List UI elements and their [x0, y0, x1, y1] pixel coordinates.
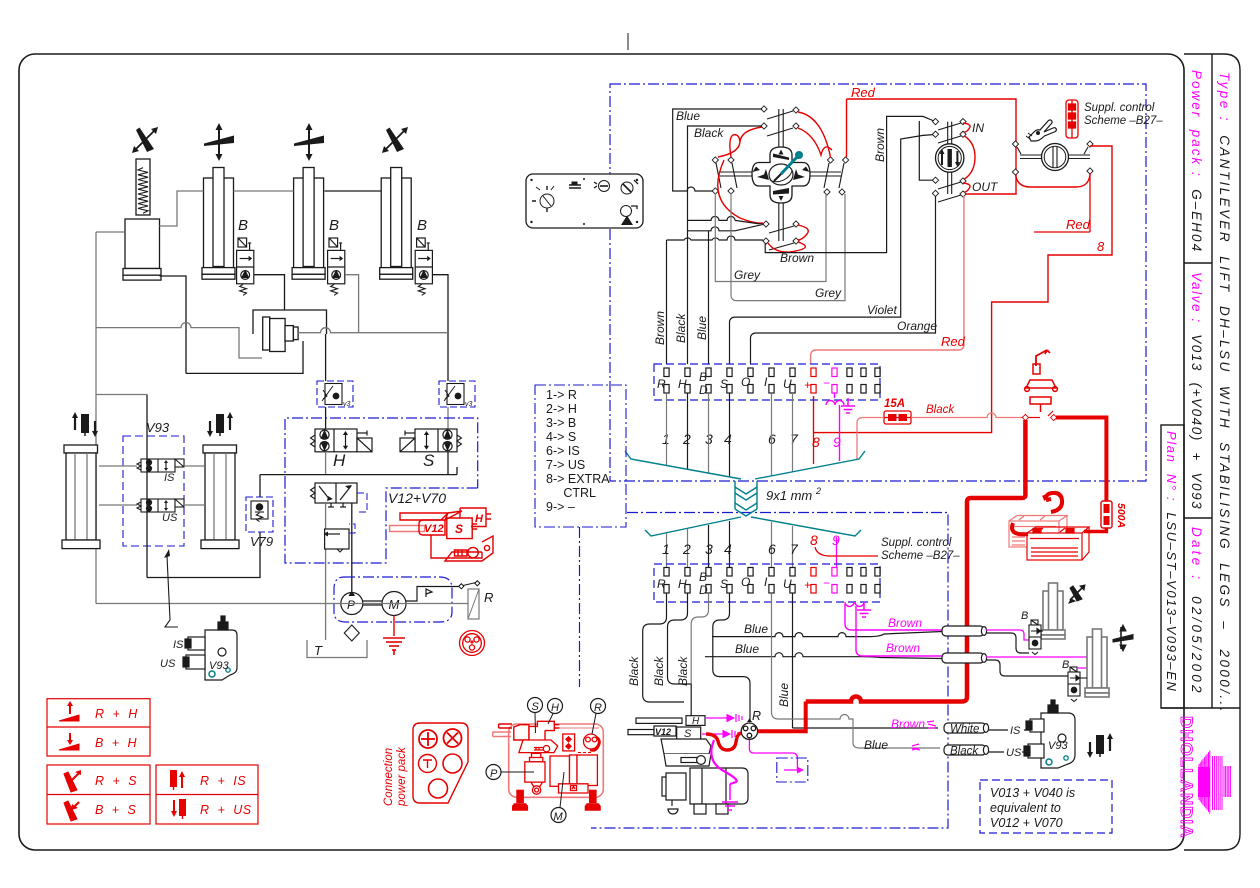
svg-text:R: R: [657, 577, 666, 591]
legend icon B+S: [64, 801, 79, 821]
black wire 2: [668, 593, 692, 716]
blue wire 2: [705, 653, 942, 659]
upper connector box: [654, 364, 880, 400]
arrow to V93 box: [165, 556, 178, 627]
V013 equivalence box: [980, 780, 1112, 833]
svg-text:M: M: [389, 597, 400, 612]
control panel plate: [526, 174, 643, 228]
svg-text:Grey: Grey: [734, 268, 761, 282]
jack stand upper: [1025, 350, 1058, 412]
black wire 4 to R: [713, 593, 750, 722]
3/2 pilot dash box: [357, 493, 367, 512]
grey wire 2: [731, 193, 845, 301]
svg-text:Date : 02/05/2002: Date : 02/05/2002: [1189, 527, 1204, 696]
gray long return line: [96, 603, 468, 605]
svg-text:Power pack : G–EH04: Power pack : G–EH04: [1189, 70, 1204, 253]
svg-text:Black: Black: [627, 656, 641, 686]
svg-text:R + S: R + S: [95, 774, 137, 788]
right B1 valve: [1029, 620, 1041, 655]
svg-text:V12: V12: [655, 727, 671, 737]
svg-text:Scheme –B27–: Scheme –B27–: [881, 550, 960, 562]
power pack forks: [493, 724, 512, 737]
svg-text:Red: Red: [941, 334, 966, 349]
fuse right wire: [911, 413, 1023, 418]
svg-text:V93: V93: [146, 420, 170, 435]
drop to V79: [259, 475, 261, 497]
legend icon R+H: [59, 701, 79, 721]
svg-text:OUT: OUT: [972, 180, 999, 194]
power pack S H block: [514, 721, 560, 740]
3/2 valve: [315, 483, 357, 507]
svg-text:IN: IN: [972, 121, 984, 135]
svg-text:−: −: [823, 376, 830, 390]
svg-text:V93: V93: [1048, 740, 1068, 752]
svg-text:O: O: [741, 375, 750, 389]
svg-text:15A: 15A: [884, 398, 905, 410]
svg-text:H: H: [678, 577, 687, 591]
svg-text:H: H: [692, 716, 700, 727]
svg-text:Blue: Blue: [676, 109, 700, 123]
orange wire: [751, 196, 936, 364]
svg-text:H: H: [475, 513, 484, 525]
svg-text:Brown: Brown: [888, 616, 922, 630]
svg-text:Black: Black: [676, 656, 690, 686]
thick red cable A: [806, 420, 1026, 702]
R pressure switch contacts: [459, 581, 480, 589]
stab cylinder right: [201, 445, 239, 549]
jack contacts: [1022, 414, 1028, 420]
tilt icon above C3: [294, 123, 324, 161]
svg-text:I: I: [764, 375, 768, 389]
svg-text:Brown: Brown: [780, 251, 814, 265]
blue wire vertical I: [772, 593, 941, 748]
motor ground wire red: [393, 616, 395, 637]
IS pipe left: [99, 465, 137, 467]
svg-text:H: H: [551, 702, 559, 714]
magenta coil plug S: [702, 730, 738, 738]
label M circle: [551, 808, 566, 823]
3/2 spring: [311, 487, 316, 499]
hop line 1: [688, 216, 764, 230]
svg-text:Black: Black: [950, 746, 979, 758]
svg-text:9-> –: 9-> –: [546, 500, 575, 514]
V79 outlet: [147, 532, 260, 578]
thick red S-curve: [706, 733, 741, 750]
magenta wire to box: [749, 740, 797, 771]
joystick stems: [719, 109, 841, 241]
svg-text:−: −: [823, 576, 830, 590]
magenta brown 2: [856, 606, 942, 656]
pipe from C1 base: [160, 276, 187, 373]
pin legend box: [535, 385, 626, 527]
svg-text:Black: Black: [674, 313, 688, 343]
svg-text:U: U: [783, 377, 792, 391]
magenta pump wire: [711, 740, 736, 784]
svg-text:2-> H: 2-> H: [546, 402, 577, 416]
svg-text:P: P: [347, 598, 355, 612]
upper connector pins: [664, 368, 880, 393]
svg-text:V12: V12: [424, 523, 444, 535]
legend box RH/BH: [47, 699, 150, 756]
right cyl1 icon: [1069, 585, 1085, 603]
svg-text:H: H: [333, 451, 346, 470]
sleeve Black: [944, 745, 989, 755]
joystick contacts bottom: [763, 221, 769, 227]
svg-text:B: B: [699, 370, 707, 384]
down-up icon right: [207, 412, 233, 437]
svg-text:Type : CANTILEVER LIFT DH–L: Type : CANTILEVER LIFT DH–LSU WITH STABI…: [1217, 72, 1232, 714]
flow valve V3 left: [317, 381, 353, 407]
crossed arrows icon above C4: [382, 127, 408, 153]
S outlet: [447, 452, 449, 475]
right B1 to cyl: [1041, 630, 1043, 632]
battery lower: [1027, 527, 1089, 560]
svg-text:Red: Red: [851, 85, 876, 100]
svg-text:Valve : V013 (+V040) + V09: Valve : V013 (+V040) + V093: [1189, 272, 1204, 510]
tank T: [307, 640, 367, 658]
svg-text:1: 1: [662, 431, 670, 447]
svg-text:Suppl. control: Suppl. control: [881, 537, 952, 549]
legend icon R+US: [171, 799, 186, 819]
salmon red wire: [811, 196, 964, 364]
right cyl2 icon: [1113, 625, 1133, 651]
connection power pack shape: [413, 723, 468, 803]
suction filter diamond: [344, 625, 359, 641]
in-out stems: [948, 122, 952, 194]
grey wire 1: [715, 193, 826, 282]
joystick cross body: [752, 147, 810, 203]
svg-text:equivalent to: equivalent to: [990, 801, 1061, 815]
electrical control box upper (dash-dot): [610, 84, 1146, 481]
svg-text:v3: v3: [465, 401, 473, 408]
svg-text:Scheme –B27–: Scheme –B27–: [1084, 115, 1163, 127]
red 8 wire path: [814, 146, 1113, 433]
DHOLLANDIA logo mark: [1198, 750, 1230, 813]
svg-text:Brown: Brown: [886, 641, 920, 655]
svg-text:3: 3: [705, 541, 713, 557]
svg-text:1: 1: [662, 541, 670, 557]
blue wire 1: [712, 632, 942, 637]
power pack diamonds box: [563, 734, 575, 751]
svg-text:Connection: Connection: [383, 748, 395, 806]
cpp circle plain2: [429, 779, 448, 798]
svg-text:2: 2: [815, 486, 821, 496]
svg-text:CTRL: CTRL: [546, 486, 596, 500]
power pack P pump: [525, 753, 545, 794]
svg-text:P: P: [490, 768, 498, 780]
R connector circle: [741, 723, 757, 739]
svg-text:S: S: [455, 522, 463, 536]
motor M: [382, 592, 406, 616]
svg-text:B + S: B + S: [95, 803, 137, 817]
svg-text:7: 7: [790, 431, 799, 447]
right B2 to cyl: [1080, 677, 1087, 679]
V12 red coil assembly: [390, 508, 493, 561]
svg-text:Violet: Violet: [867, 303, 897, 317]
lowering valve B4: [415, 238, 432, 284]
svg-text:4: 4: [724, 431, 732, 447]
sleeve 2: [942, 653, 987, 663]
svg-text:Black: Black: [926, 404, 955, 416]
joystick blades: [753, 150, 810, 202]
spring cylinder C1 body: [123, 219, 161, 280]
hand icon: [1026, 120, 1056, 141]
svg-text:7: 7: [790, 541, 799, 557]
power pack M motor: [550, 755, 597, 793]
svg-text:T: T: [314, 643, 323, 658]
reducer pilot dash: [349, 524, 355, 533]
V93 dashed box: [123, 436, 184, 546]
legend box RIS/RUS: [156, 765, 258, 824]
valve B2 outlet: [254, 275, 285, 310]
svg-text:B: B: [699, 570, 707, 584]
svg-text:R: R: [657, 377, 666, 391]
crossed arrows icon above C1: [132, 127, 158, 153]
V93 block right: [1024, 700, 1075, 768]
power pack feet: [512, 790, 601, 811]
label R circle: [591, 699, 606, 714]
funnel tails lower: [666, 533, 668, 567]
svg-text:6: 6: [768, 541, 776, 557]
red connector strip vertical: [1066, 100, 1078, 138]
svg-text:Blue: Blue: [864, 738, 888, 752]
gray line right of coupler: [298, 328, 448, 333]
magenta ground pump: [722, 784, 738, 810]
black wire 1: [643, 593, 684, 702]
spark 2: [912, 744, 920, 750]
legend icon R+IS: [170, 770, 185, 790]
rotary switch: [1042, 144, 1069, 171]
battery upper: [1009, 516, 1067, 548]
joystick contacts top: [761, 106, 767, 112]
svg-text:IS: IS: [1010, 725, 1021, 737]
R pressure switch body: [468, 589, 479, 619]
stab cylinder left: [62, 445, 100, 549]
red drop to contacts: [846, 99, 848, 157]
pump P: [341, 593, 363, 615]
title block outline: [1161, 54, 1240, 850]
V93 right icon: [1087, 733, 1113, 758]
svg-text:B: B: [1021, 610, 1028, 622]
black wire 3: [691, 593, 708, 684]
svg-text:8: 8: [1097, 239, 1105, 254]
red jumpers left: [718, 112, 832, 157]
V93 riser: [146, 395, 148, 578]
legend box RS/BS: [47, 765, 150, 824]
hydraulic cylinder C2: [202, 168, 235, 280]
svg-text:D: D: [699, 583, 708, 597]
svg-text:Suppl. control: Suppl. control: [1084, 102, 1155, 114]
rotary red under-arc: [1016, 174, 1091, 187]
svg-text:U: U: [783, 577, 792, 591]
small dashed box magenta arrow: [777, 758, 808, 782]
svg-text:R + IS: R + IS: [200, 774, 246, 788]
svg-text:v3: v3: [343, 401, 351, 408]
svg-text:7-> US: 7-> US: [546, 458, 585, 472]
svg-text:V12+V70: V12+V70: [388, 490, 446, 506]
joystick lever teal: [781, 157, 797, 174]
red top feed: [847, 99, 1017, 194]
svg-text:S: S: [720, 377, 728, 391]
500A fuse: [1101, 501, 1112, 528]
spring cylinder C1 rod: [136, 159, 150, 215]
solenoid valve H: [315, 429, 372, 452]
svg-text:1-> R: 1-> R: [546, 388, 577, 402]
svg-text:Grey: Grey: [815, 286, 842, 300]
svg-text:V013 + V040 is: V013 + V040 is: [990, 786, 1075, 800]
svg-text:S: S: [720, 577, 728, 591]
joystick contacts left: [712, 157, 718, 163]
V93 valve block: [183, 616, 237, 680]
blue wire vertical U: [793, 593, 939, 728]
thick red R to main: [758, 702, 806, 732]
in-out link wire: [919, 121, 934, 180]
power pack tray: [519, 740, 558, 753]
valve B4 outlet: [432, 275, 448, 381]
cpp circle plain1: [443, 754, 462, 773]
left main riser: [95, 232, 97, 604]
svg-text:Plan N° : LSU–ST–V013–V093–E: Plan N° : LSU–ST–V013–V093–EN: [1164, 431, 1179, 693]
svg-text:B: B: [329, 217, 339, 234]
rotary contacts: [1012, 141, 1018, 147]
drop V3 right to S: [447, 407, 449, 429]
svg-text:Brown: Brown: [891, 717, 925, 731]
lowering valve B2: [237, 238, 254, 284]
contact flag: [426, 589, 432, 597]
svg-text:power pack: power pack: [396, 746, 408, 807]
svg-text:8: 8: [810, 532, 818, 548]
svg-text:IS: IS: [164, 472, 175, 484]
drop 3/2 to pump: [351, 503, 353, 592]
battery top hook cable: [1044, 493, 1062, 512]
suppl wire red lower: [815, 547, 878, 556]
power pack outline: [334, 577, 452, 622]
svg-text:V93: V93: [209, 660, 229, 672]
V93 riser top: [96, 394, 147, 396]
svg-text:9: 9: [832, 532, 840, 548]
svg-text:4-> S: 4-> S: [546, 430, 576, 444]
legend icon B+H: [59, 733, 79, 750]
gray supply line with hops: [96, 323, 262, 358]
in-out symbol: [940, 149, 961, 167]
svg-text:3-> B: 3-> B: [546, 416, 576, 430]
top centre tick mark: [627, 33, 629, 50]
svg-text:V79: V79: [250, 534, 273, 549]
svg-text:V012 + V070: V012 + V070: [990, 816, 1063, 830]
cpp circle X: [444, 729, 462, 747]
svg-text:R: R: [752, 709, 761, 723]
fuse left wire: [857, 418, 884, 460]
plate icons: [532, 180, 638, 217]
US pipe right: [184, 504, 205, 506]
power pack pictorial frame: [509, 724, 604, 797]
svg-text:Blue: Blue: [695, 316, 709, 340]
solenoid valve S: [400, 429, 457, 452]
spring inside C1: [138, 168, 148, 214]
electrical platform box lower (dash-dot): [591, 513, 948, 829]
pipe C1 left: [96, 231, 125, 233]
V93 right teal dots: [1046, 759, 1052, 765]
magenta minus curls lower: [845, 602, 864, 607]
svg-text:O: O: [741, 575, 750, 589]
lower connector box: [654, 564, 880, 602]
red jumpers bottom: [718, 160, 809, 252]
svg-text:R + H: R + H: [95, 707, 138, 721]
V79 relief valve: [251, 501, 268, 519]
svg-text:B: B: [417, 217, 427, 234]
svg-text:+: +: [804, 378, 811, 392]
lower connector pins: [664, 568, 880, 594]
pipe cyl2 to C1: [160, 191, 204, 226]
svg-text:6-> IS: 6-> IS: [546, 444, 580, 458]
valve B3 outlet: [345, 275, 359, 333]
svg-text:Blue: Blue: [777, 683, 791, 707]
fuse to battery wire: [1084, 528, 1106, 532]
IS US wires: [988, 730, 1033, 752]
label P circle: [486, 765, 501, 780]
in-out red arcs: [963, 123, 975, 192]
svg-text:H: H: [678, 377, 687, 391]
sleeve 1: [942, 626, 987, 636]
right B2 valve: [1068, 667, 1080, 702]
solenoid IS: [137, 459, 184, 472]
svg-text:US: US: [162, 512, 178, 524]
solenoid US: [137, 499, 184, 512]
pin tails upper: [666, 393, 668, 465]
svg-text:Blue: Blue: [735, 642, 759, 656]
label S circle: [528, 698, 543, 713]
svg-text:M: M: [554, 811, 564, 823]
pin3 wire: [708, 231, 710, 364]
V93 block teal dots: [209, 671, 215, 677]
svg-text:Orange: Orange: [897, 319, 937, 333]
svg-text:I: I: [764, 575, 768, 589]
coupler loop pipe: [253, 310, 327, 334]
lowering valve B3: [328, 238, 345, 284]
svg-text:White: White: [950, 724, 979, 736]
svg-text:S: S: [423, 451, 435, 470]
red 8 tail: [813, 433, 815, 464]
svg-text:S: S: [532, 701, 540, 713]
reducer valve: [324, 529, 350, 552]
svg-text:4: 4: [724, 541, 732, 557]
hydraulic cylinder C3: [292, 168, 325, 280]
red ground symbol: [383, 638, 405, 655]
svg-text:B: B: [1062, 659, 1069, 671]
tilt icon above C2: [204, 123, 234, 161]
joystick ball: [769, 164, 793, 185]
cable funnel top: [625, 451, 865, 536]
svg-text:+: +: [804, 578, 811, 592]
red bolt flange connector: [460, 631, 485, 656]
svg-text:Black: Black: [694, 126, 724, 140]
H outlet: [325, 452, 327, 475]
sleeve2 out: [986, 660, 1068, 676]
sleeve1 out: [986, 633, 1029, 653]
svg-text:Brown: Brown: [653, 311, 667, 345]
motor feed line: [406, 587, 461, 602]
V12 lower assembly: [628, 716, 711, 766]
svg-text:Black: Black: [652, 656, 666, 686]
Black wire: [688, 126, 763, 364]
svg-text:US: US: [1006, 747, 1022, 759]
svg-text:Red: Red: [1066, 217, 1091, 232]
drop V3 left to H: [325, 407, 327, 429]
battery jumper cable: [1012, 523, 1028, 534]
up-down icon left: [72, 412, 98, 437]
svg-text:B: B: [238, 217, 248, 234]
svg-text:Brown: Brown: [873, 128, 887, 162]
